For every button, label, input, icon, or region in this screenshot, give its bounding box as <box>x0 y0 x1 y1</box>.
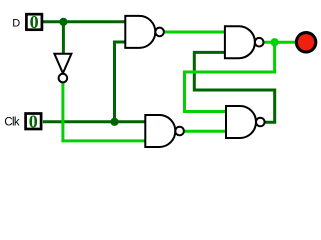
svg-text:0: 0 <box>29 112 38 132</box>
nand gate U2 <box>145 115 184 147</box>
svg-text:D: D <box>12 18 20 30</box>
node C junction on Q net <box>271 38 279 46</box>
nand gate U3 <box>225 26 264 58</box>
wire W7: U1 output to U3 top input (net S=1) <box>164 31 225 34</box>
input pin Clk <box>26 112 41 132</box>
node A junction on D net <box>59 18 67 26</box>
wire W3: Clk pin to U2 top input (net Clk=0) <box>43 120 145 123</box>
wire W8: U2 output to U4 lower input (net R=1) <box>184 130 226 133</box>
wire W5: U4 output feedback to U3 lower input (net Qbar=0) <box>194 52 274 122</box>
nand gate U1 <box>125 16 164 48</box>
input pin D <box>26 12 42 32</box>
wire W1: D pin to U1 top input (net D=0) <box>43 20 125 23</box>
LED D1 (lit) <box>296 33 315 52</box>
svg-text:0: 0 <box>30 12 39 32</box>
node B junction on Clk net <box>110 118 118 126</box>
wire W10: node C feedback down, left, down, right to U4 top input <box>185 42 275 111</box>
inverter U5 <box>54 54 71 83</box>
wire W6: inverter output down and right to U2 lower input (net Dbar=1) <box>63 82 145 141</box>
wire W4: node B up then right to U1 lower input <box>115 42 126 122</box>
wire W2: node A down to inverter input <box>62 22 65 55</box>
svg-text:Clk: Clk <box>4 117 19 129</box>
nand gate U4 <box>226 106 265 138</box>
wire W9: U3 output to LED (net Q=1) <box>263 41 296 44</box>
